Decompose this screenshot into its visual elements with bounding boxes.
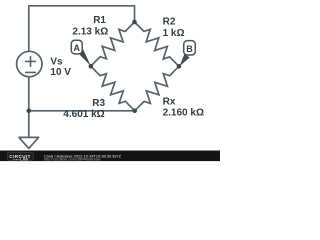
svg-text:2.160 kΩ: 2.160 kΩ	[163, 107, 204, 118]
watermark footer bar	[0, 151, 220, 162]
svg-text:∼▪∼LAB: ∼▪∼LAB	[13, 158, 29, 162]
resistor Rx	[135, 66, 179, 111]
svg-text:R1: R1	[93, 15, 106, 26]
junction: bridge bottom vertex	[132, 109, 137, 114]
resistor R2	[135, 22, 180, 66]
svg-text:Vs: Vs	[50, 57, 63, 68]
svg-text:B: B	[186, 44, 193, 54]
svg-text:2.13 kΩ: 2.13 kΩ	[72, 26, 108, 37]
ground	[19, 137, 39, 148]
wire: bottom rail from ground junction to bridge bottom	[29, 110, 135, 112]
resistor R1	[91, 22, 135, 66]
svg-text:Rx: Rx	[163, 96, 176, 107]
svg-text:4.601 kΩ: 4.601 kΩ	[63, 109, 104, 120]
svg-text:A: A	[73, 43, 80, 53]
junction: bridge right vertex (node B)	[177, 64, 182, 69]
svg-text:http://circuitlab.com/c6844bel: http://circuitlab.com/c6844belarbrwj	[44, 157, 101, 161]
svg-text:10 V: 10 V	[50, 67, 71, 78]
resistor R3	[91, 66, 135, 111]
junction: bridge left vertex (node A)	[89, 64, 94, 69]
svg-text:R2: R2	[163, 16, 176, 27]
junction: bridge top vertex	[132, 20, 137, 25]
node A flag	[71, 40, 91, 66]
voltage source Vs	[17, 51, 42, 76]
svg-text:R3: R3	[92, 98, 105, 109]
wire: top rail from source to bridge top	[29, 6, 135, 52]
svg-text:1 kΩ: 1 kΩ	[163, 28, 185, 39]
wire: source bottom to ground junction	[28, 77, 30, 137]
node B flag	[179, 41, 195, 67]
junction: ground node below source	[27, 109, 32, 114]
